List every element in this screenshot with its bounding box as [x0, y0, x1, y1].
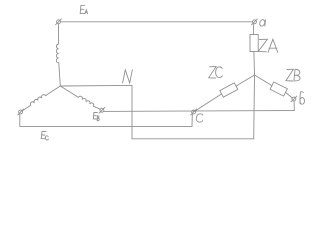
wire load star leg ZB: [255, 75, 272, 86]
wire phase A top: [61, 21, 253, 23]
terminal EB: [99, 107, 105, 113]
impedance ZB: [270, 82, 287, 96]
node load star point: [194, 75, 254, 112]
label ZA: [258, 39, 278, 52]
wire ZC to terminal C: [194, 94, 221, 112]
wire load star leg ZC: [236, 75, 255, 86]
impedance ZC: [220, 83, 238, 97]
impedance ZA: [250, 35, 258, 52]
terminal a: [252, 19, 258, 25]
wire ZA to load star: [253, 52, 256, 76]
terminal b: [291, 96, 297, 102]
label ZB: [286, 69, 300, 81]
label C: [196, 114, 203, 122]
label EA: [80, 5, 87, 13]
terminal EA: [56, 19, 62, 25]
label b: [300, 92, 305, 104]
label a: [259, 20, 266, 26]
wire ZB to terminal b: [286, 92, 293, 98]
terminal C: [191, 109, 197, 115]
winding EC (source phase C coil): [22, 86, 60, 111]
neutral wire N routing: [60, 75, 254, 139]
wire b to phase B line: [104, 101, 294, 111]
label N: [123, 70, 133, 83]
label EC: [41, 132, 48, 140]
label EB: [93, 112, 99, 120]
winding EB (source phase B coil): [60, 86, 100, 109]
wire a to ZA: [253, 24, 255, 35]
label ZC: [209, 67, 223, 79]
winding EA (source phase A coil): [56, 24, 60, 86]
wire EC to terminal C: [20, 114, 193, 127]
terminal EC: [18, 109, 24, 115]
